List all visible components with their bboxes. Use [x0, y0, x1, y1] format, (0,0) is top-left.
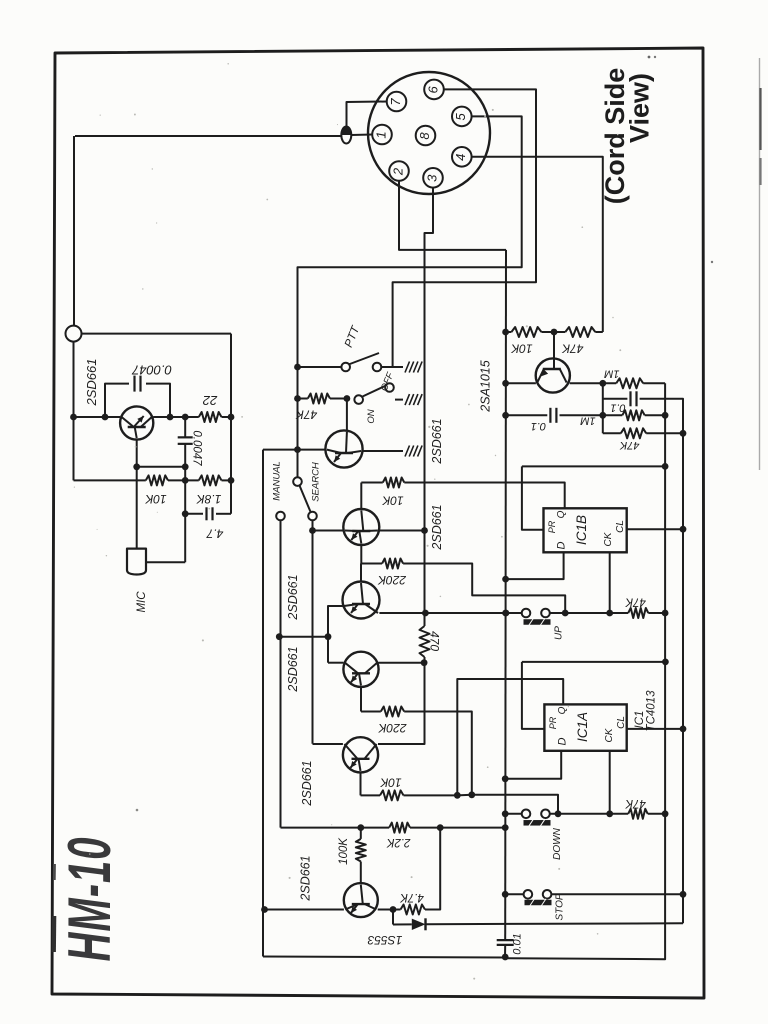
svg-text:2SD661: 2SD661	[300, 760, 314, 806]
svg-text:SEARCH: SEARCH	[311, 462, 322, 502]
svg-text:2SD661: 2SD661	[286, 646, 300, 692]
svg-text:IC1B: IC1B	[574, 515, 589, 545]
svg-text:2SD661: 2SD661	[298, 855, 312, 901]
svg-text:2SA1015: 2SA1015	[478, 360, 492, 412]
svg-text:47K: 47K	[624, 595, 646, 607]
svg-text:UP: UP	[554, 626, 565, 640]
svg-text:8: 8	[417, 132, 432, 140]
svg-text:47K: 47K	[624, 797, 646, 809]
svg-text:CL: CL	[615, 520, 626, 533]
svg-text:HM-10: HM-10	[56, 836, 123, 961]
svg-text:2SD661: 2SD661	[286, 574, 300, 620]
svg-text:1M: 1M	[580, 415, 596, 427]
svg-text:0.0047: 0.0047	[190, 430, 202, 466]
svg-text:220K: 220K	[377, 573, 407, 587]
svg-text:7: 7	[388, 98, 403, 106]
svg-text:0.1: 0.1	[610, 402, 625, 414]
svg-text:0.01: 0.01	[511, 933, 523, 954]
svg-text:1S553: 1S553	[367, 933, 402, 947]
svg-text:2SD661: 2SD661	[430, 418, 444, 464]
svg-text:CK: CK	[603, 531, 614, 546]
svg-text:47K: 47K	[295, 407, 317, 421]
svg-text:47K: 47K	[561, 341, 583, 355]
svg-text:DOWN: DOWN	[552, 827, 563, 859]
svg-text:10K: 10K	[379, 775, 401, 789]
svg-text:2SD661: 2SD661	[430, 504, 444, 550]
svg-text:3: 3	[424, 174, 439, 182]
svg-text:View): View)	[625, 73, 655, 143]
svg-text:0.0047: 0.0047	[131, 363, 172, 378]
svg-text:MIC: MIC	[136, 591, 148, 613]
svg-text:22: 22	[202, 393, 218, 408]
svg-text:4: 4	[453, 154, 468, 161]
svg-text:470: 470	[427, 631, 441, 651]
svg-text:10K: 10K	[510, 341, 532, 355]
svg-text:1.8K: 1.8K	[196, 492, 222, 506]
svg-text:47K: 47K	[619, 439, 639, 451]
svg-text:CK: CK	[604, 727, 615, 742]
svg-text:6: 6	[425, 86, 440, 94]
svg-text:0.1: 0.1	[531, 420, 546, 432]
svg-text:Q: Q	[557, 706, 568, 714]
svg-text:ON: ON	[366, 409, 377, 423]
svg-text:TC4013: TC4013	[646, 690, 658, 732]
svg-text:MANUAL: MANUAL	[272, 461, 283, 501]
svg-text:D: D	[555, 541, 567, 549]
svg-text:IC1: IC1	[634, 711, 646, 729]
svg-text:Q: Q	[556, 510, 567, 518]
svg-text:PR: PR	[547, 520, 557, 533]
svg-text:PTT: PTT	[343, 324, 363, 350]
svg-text:10K: 10K	[381, 493, 403, 507]
svg-text:2: 2	[390, 167, 405, 176]
svg-text:1M: 1M	[603, 367, 619, 379]
svg-text:PR: PR	[548, 716, 558, 729]
svg-text:STOP: STOP	[555, 893, 566, 920]
svg-text:D: D	[556, 737, 568, 745]
svg-text:1: 1	[373, 131, 388, 138]
svg-text:2.2K: 2.2K	[385, 836, 411, 848]
svg-text:100K: 100K	[338, 837, 350, 865]
svg-text:10K: 10K	[144, 492, 166, 506]
svg-text:CL: CL	[616, 716, 627, 729]
svg-text:5: 5	[453, 113, 468, 121]
svg-text:2SD661: 2SD661	[84, 359, 99, 407]
svg-text:IC1A: IC1A	[575, 712, 590, 742]
svg-text:4.7: 4.7	[205, 526, 223, 540]
svg-text:220K: 220K	[377, 721, 407, 735]
svg-text:4.7K: 4.7K	[399, 891, 424, 903]
